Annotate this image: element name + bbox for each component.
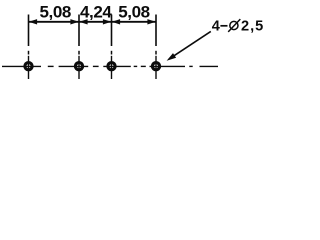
diameter symbol circle: [230, 21, 238, 29]
vertical centerline through hole 2: [78, 56, 80, 79]
hole 4 circle: [152, 63, 159, 70]
horizontal centerline segment through hole 3: [103, 65, 131, 67]
svg-text:4,24: 4,24: [80, 2, 112, 21]
svg-text:5,08: 5,08: [118, 2, 150, 21]
horizontal centerline dash between holes 1-2: [48, 65, 54, 67]
horizontal centerline dash between holes 3-4 (first): [134, 65, 138, 67]
diameter symbol slash: [228, 19, 240, 32]
centerline dash-dot dot above hole 4: [155, 51, 157, 55]
extension line hole 4: [155, 15, 157, 47]
svg-text:2,5: 2,5: [241, 19, 264, 35]
horizontal centerline segment left of hole 1: [2, 65, 41, 67]
hole 1 circle: [25, 63, 32, 70]
horizontal centerline end dash (right end): [200, 65, 219, 67]
leader arrowhead pointing at hole 4: [167, 53, 177, 61]
extension line hole 1: [28, 15, 30, 47]
extension line hole 3: [111, 15, 113, 47]
vertical centerline through hole 1: [28, 56, 30, 79]
extension line hole 2: [78, 15, 80, 47]
hole 3 circle: [108, 63, 115, 70]
arrowhead left of dim 3 (tip at hole3 line, pointing left): [112, 19, 120, 24]
centerline dash-dot dot above hole 1: [28, 51, 30, 55]
leader line from label 4-diameter2,5 to hole 4: [169, 31, 211, 59]
arrowhead left of dim 2 (tip at hole2 line, pointing left): [79, 19, 87, 24]
arrowhead right of dim 2 (tip at hole3 line, pointing right): [103, 19, 111, 24]
dimension line (top, through all extension lines): [29, 21, 157, 23]
dash between 4 and diameter symbol: [220, 25, 227, 27]
horizontal centerline dash between holes 2-3: [93, 65, 99, 67]
arrowhead right of dim 3 (tip at hole4 line, pointing right): [147, 19, 155, 24]
centerline dash-dot dot above hole 3: [111, 51, 113, 55]
horizontal centerline segment through hole 2: [59, 65, 89, 67]
vertical centerline through hole 4: [155, 56, 157, 79]
horizontal centerline dash between holes 3-4 (second): [141, 65, 146, 67]
vertical centerline through hole 3: [111, 56, 113, 79]
arrowhead left of dim 1 (tip at hole1 line, pointing left): [29, 19, 37, 24]
hole 2 circle: [75, 63, 82, 70]
centerline dash-dot dot above hole 2: [78, 51, 80, 55]
svg-text:5,08: 5,08: [39, 2, 71, 21]
horizontal centerline segment through hole 4: [150, 65, 186, 67]
svg-text:4: 4: [212, 19, 221, 35]
arrowhead right of dim 1 (tip at hole2 line, pointing right): [70, 19, 78, 24]
horizontal centerline dot right of hole 4: [189, 65, 192, 67]
